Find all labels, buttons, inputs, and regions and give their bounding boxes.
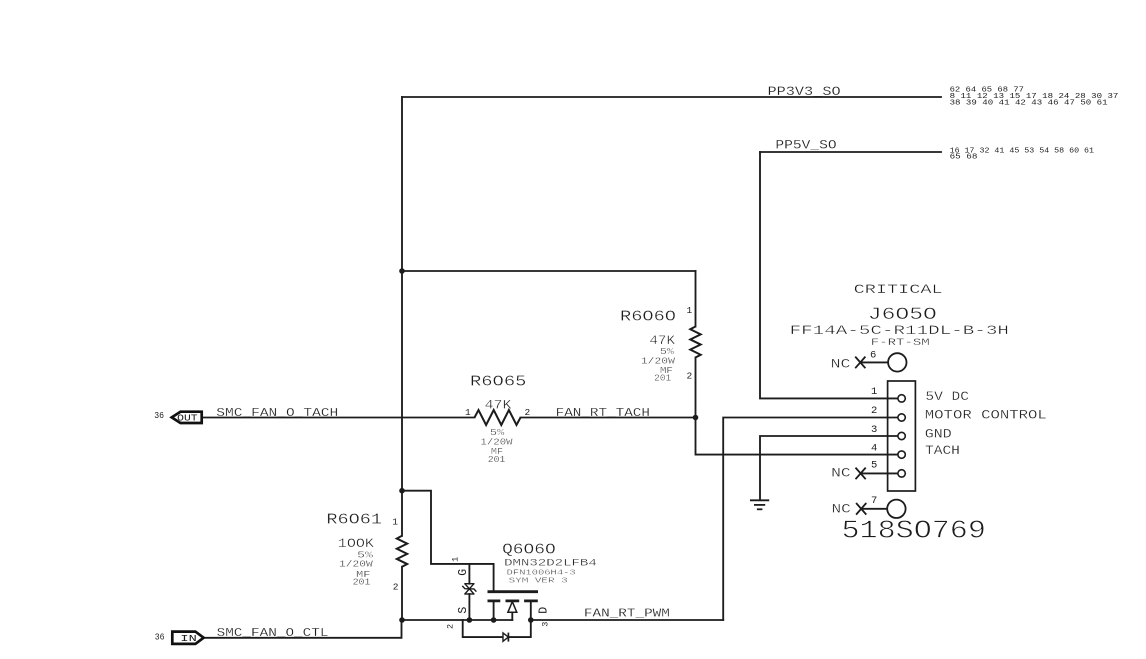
svg-text:IN: IN	[180, 633, 196, 644]
svg-text:D: D	[537, 607, 550, 614]
wire NC pin 5	[861, 472, 898, 474]
svg-text:CRITICAL: CRITICAL	[854, 282, 943, 297]
wire gate feed from R6061 node	[402, 491, 494, 591]
transistor Q6060 channel segments	[488, 600, 538, 603]
svg-text:1: 1	[451, 557, 461, 562]
wire SMC_FAN_0_CTL	[204, 620, 402, 638]
resistor R6060 zigzag	[690, 327, 700, 358]
svg-text:OUT: OUT	[177, 413, 198, 424]
svg-text:2: 2	[871, 405, 877, 417]
svg-text:R6О6О: R6О6О	[620, 310, 676, 326]
svg-text:FF14A-5C-R11DL-B-3H: FF14A-5C-R11DL-B-3H	[790, 323, 1009, 338]
svg-text:2: 2	[687, 371, 693, 382]
svg-text:36: 36	[155, 633, 165, 643]
svg-text:NC: NC	[831, 466, 851, 481]
svg-text:J6О5О: J6О5О	[868, 305, 937, 325]
resistor R6061 zigzag	[397, 536, 407, 567]
connector pin 5 circle	[898, 470, 905, 477]
svg-text:FAN_RT_PWM: FAN_RT_PWM	[584, 606, 670, 620]
connector pin 4 circle	[898, 451, 905, 458]
svg-text:201: 201	[488, 455, 506, 465]
wire Q6060 drain lead	[530, 601, 532, 620]
svg-text:1: 1	[687, 305, 693, 316]
svg-text:2: 2	[393, 581, 399, 592]
svg-text:38 39 40 41 42 43 46 47 50 61: 38 39 40 41 42 43 46 47 50 61	[950, 99, 1109, 107]
svg-text:2: 2	[525, 407, 531, 418]
svg-text:TACH: TACH	[925, 444, 960, 458]
wire FAN_RT_TACH from R6065 to node	[521, 417, 696, 419]
diode body diode triangle	[503, 633, 508, 641]
no-connect X pin 5	[856, 468, 866, 480]
svg-text:1/20W: 1/20W	[480, 437, 513, 447]
svg-text:2: 2	[445, 624, 455, 629]
wire PP5V_S0 drop to pin 1	[760, 152, 898, 398]
connector pin 7 mounting circle	[887, 500, 905, 518]
svg-text:MOTOR CONTROL: MOTOR CONTROL	[925, 408, 1047, 422]
svg-text:S: S	[457, 607, 470, 614]
connector J6050 body	[888, 381, 916, 491]
node junction dot drain lead	[528, 617, 534, 623]
svg-text:DMN32D2LFB4: DMN32D2LFB4	[504, 559, 597, 570]
svg-text:7: 7	[871, 495, 877, 507]
connector pin 6 mounting circle	[888, 353, 906, 371]
wire connector pin 3 to ground	[760, 436, 898, 500]
svg-text:3: 3	[540, 622, 550, 627]
wire PP3V3_S0 horizontal rail	[402, 96, 941, 98]
transistor Q6060 body arrow	[508, 602, 517, 613]
svg-text:47K: 47K	[485, 398, 512, 413]
svg-text:DFN1006H4-3: DFN1006H4-3	[507, 569, 577, 577]
flag OUT port	[172, 412, 202, 423]
svg-text:R6О61: R6О61	[326, 512, 382, 528]
wire zener gate drop	[468, 564, 470, 584]
resistor R6065 zigzag	[475, 410, 521, 425]
no-connect X pin 7	[856, 503, 866, 515]
svg-text:SYM_VER_3: SYM_VER_3	[509, 577, 569, 585]
wire connector pin 2 to FAN_RT_PWM	[723, 418, 898, 621]
svg-text:1/20W: 1/20W	[339, 560, 374, 570]
svg-text:5V DC: 5V DC	[925, 390, 969, 404]
svg-text:PP5V_SО: PP5V_SО	[775, 138, 836, 152]
connector pin 1 circle	[898, 395, 905, 402]
node junction dot zener source rail	[467, 617, 473, 623]
wire node TACH to connector pin 4	[696, 418, 898, 455]
wire PP3V3_S0 vertical drop	[401, 97, 403, 536]
transistor Q6060 gate bar	[488, 590, 539, 593]
svg-text:G: G	[457, 569, 470, 576]
svg-text:F-RT-SM: F-RT-SM	[871, 338, 930, 349]
svg-text:1: 1	[871, 386, 877, 398]
wire FAN_RT_PWM rail drain side	[531, 619, 723, 621]
svg-text:NC: NC	[831, 356, 851, 371]
svg-text:GND: GND	[925, 427, 952, 441]
node junction dot FAN_RT_TACH	[693, 415, 699, 421]
svg-text:3: 3	[871, 424, 877, 436]
svg-text:5: 5	[871, 459, 877, 471]
wire PP5V_S0 horizontal rail	[760, 151, 941, 153]
svg-text:R6О65: R6О65	[470, 375, 526, 391]
svg-text:1: 1	[465, 407, 471, 418]
svg-text:1ООK: 1ООK	[338, 536, 374, 551]
svg-text:201: 201	[353, 578, 371, 588]
connector pin 2 circle	[898, 414, 905, 421]
svg-text:Q6О6О: Q6О6О	[502, 542, 556, 558]
wire body diode tap	[511, 612, 513, 620]
wire Q6060 source lead	[493, 601, 495, 620]
svg-text:65 68: 65 68	[950, 154, 978, 162]
svg-text:1: 1	[392, 516, 398, 527]
wire R6060 top lead	[695, 271, 697, 327]
ground symbol	[750, 500, 769, 509]
wire NC pin 7	[861, 508, 887, 510]
no-connect X pin 6	[855, 357, 865, 369]
svg-text:5%: 5%	[660, 347, 675, 357]
wire FAN_RT_PWM rail source side	[402, 619, 512, 621]
wire node PP3V3 branch to R6060	[402, 270, 696, 272]
node junction dot gate branch	[399, 488, 405, 494]
wire R6061 lower lead to PWM rail	[401, 567, 403, 620]
connector pin 3 circle	[898, 432, 905, 439]
wire zener to source rail	[468, 594, 470, 620]
wire SMC_FAN_0_TACH to R6065	[204, 417, 475, 419]
svg-text:6: 6	[870, 349, 876, 361]
flag IN port	[172, 632, 203, 644]
svg-text:201: 201	[654, 373, 671, 383]
svg-text:518SО769: 518SО769	[842, 515, 986, 545]
svg-text:NC: NC	[832, 501, 852, 516]
node junction dot PP3V3/R6060	[399, 268, 405, 274]
svg-text:1/20W: 1/20W	[641, 356, 676, 366]
wire R6060 bottom lead to TACH node	[695, 358, 697, 418]
node junction dot source lead	[491, 617, 497, 623]
svg-text:36: 36	[154, 411, 164, 421]
wire body diode loop	[463, 620, 531, 637]
node junction dot CTL rail	[399, 617, 405, 623]
wire NC pin 6	[860, 361, 888, 363]
svg-text:4: 4	[871, 443, 877, 455]
diode body diode cathode bar	[507, 633, 509, 642]
zener gate protection symbol	[462, 584, 476, 594]
